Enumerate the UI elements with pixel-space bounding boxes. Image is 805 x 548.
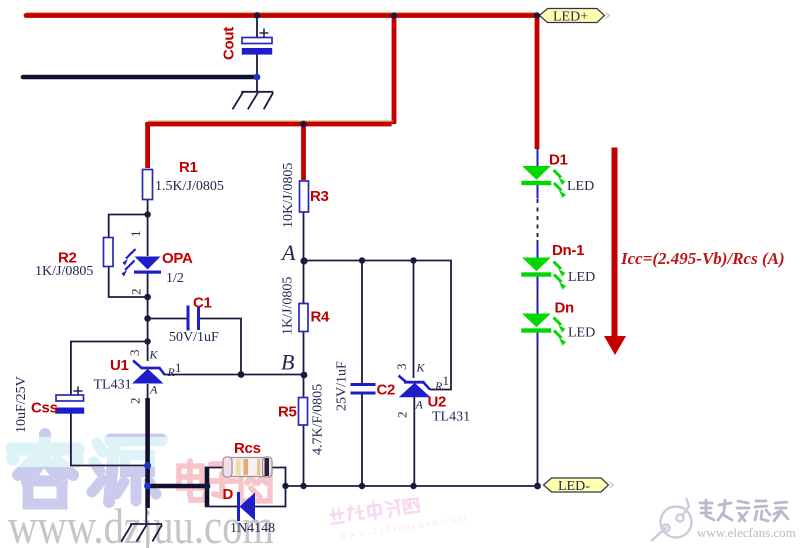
pin 3 U1 [127, 350, 142, 357]
label U2 [428, 394, 447, 411]
label OPA [162, 250, 193, 267]
op-amp OPA photodiode symbol [122, 249, 162, 277]
node B label [281, 350, 294, 375]
label Dn-1 [552, 242, 584, 259]
grid tint above second bus [148, 120, 393, 121]
node A label [280, 240, 296, 265]
pin 2 OPA [129, 289, 144, 296]
pin K U2 [416, 361, 426, 375]
svg-text:TL431: TL431 [432, 410, 470, 425]
svg-text:2: 2 [128, 398, 143, 405]
wire R2 branch [109, 215, 148, 298]
label R2 [58, 250, 77, 267]
wire bottom bus [286, 485, 540, 487]
pin 2 U1 [128, 398, 143, 405]
LED Dn-1 [521, 244, 566, 290]
label D [223, 486, 234, 503]
wire R3 R4 column [303, 211, 305, 487]
svg-text:1K/J/0805: 1K/J/0805 [35, 264, 93, 279]
svg-text:1N4148: 1N4148 [230, 521, 275, 536]
wire Cout bottom to ground [256, 54, 258, 92]
svg-text:LED: LED [567, 179, 594, 194]
svg-text:K: K [149, 348, 159, 362]
port LED+ [540, 9, 610, 25]
label R5 [278, 404, 297, 421]
formula Icc [620, 249, 785, 268]
svg-text:TL431: TL431 [94, 378, 132, 393]
label D1 [549, 152, 568, 169]
pin 1 U1 [175, 360, 182, 375]
svg-text:C2: C2 [377, 382, 396, 399]
label Css [31, 400, 58, 417]
wire red stub to R3 [301, 124, 306, 180]
wire LED column top [537, 148, 539, 167]
wire red stub to R1 [145, 122, 150, 168]
label R1 [179, 159, 198, 176]
svg-text:3: 3 [394, 364, 409, 371]
label C2 [377, 382, 396, 399]
transistor U1 TL431 [132, 361, 165, 384]
wire network top through Rcs [205, 467, 286, 469]
wire red drop to LED string [535, 14, 540, 150]
svg-text:A: A [149, 383, 158, 397]
capacitor C1 [188, 306, 199, 331]
svg-text:1.5K/J/0805: 1.5K/J/0805 [155, 179, 224, 194]
label Dn [555, 300, 575, 317]
svg-text:2: 2 [395, 412, 410, 419]
value U2 TL431 [432, 410, 470, 425]
wire C1 branch right down to node B [200, 319, 241, 375]
watermark dian-zi-wang pink characters [179, 461, 270, 501]
svg-text:K: K [416, 361, 426, 375]
pin A U1 [149, 383, 158, 397]
transistor U2 TL431 [399, 376, 431, 398]
wire C2 column [361, 261, 363, 488]
watermark shiji-dianyuan pink small [330, 489, 469, 543]
value OPA 1/2 [166, 271, 184, 286]
label C1 [193, 295, 212, 312]
wire U1 anode thin [147, 384, 149, 400]
pin 1 U2 [443, 373, 450, 388]
wire node A rail [304, 261, 452, 390]
svg-text:www.21dianyuan.com: www.21dianyuan.com [339, 513, 469, 542]
svg-text:B: B [281, 350, 294, 375]
ground at U1 [121, 524, 162, 542]
value R1 1.5K/J/0805 [155, 179, 224, 194]
value R2 1K/J/0805 [35, 264, 93, 279]
svg-text:A: A [280, 240, 296, 265]
svg-text:OPA: OPA [162, 250, 193, 267]
wire U2 anode [413, 397, 415, 487]
grid tint above top bus [26, 12, 536, 14]
pin A U2 [415, 398, 424, 412]
pin 2 U2 [395, 412, 410, 419]
diode D 1N4148 [239, 492, 256, 521]
svg-text:A: A [415, 398, 424, 412]
value Css 10uF/25V [14, 376, 29, 433]
wire U2 cathode column [413, 261, 415, 379]
svg-text:Dn: Dn [555, 300, 575, 317]
svg-text:R1: R1 [179, 159, 198, 176]
svg-text:50V/1uF: 50V/1uF [169, 330, 219, 345]
svg-text:LED: LED [568, 326, 595, 341]
capacitor Css [55, 387, 84, 414]
label Rcs [234, 440, 261, 457]
wire Dn-1 to Dn [537, 276, 539, 314]
pin K U1 [149, 348, 159, 362]
svg-text:U1: U1 [110, 357, 129, 374]
svg-text:25V/1uF: 25V/1uF [335, 361, 350, 411]
resistor R2 [104, 238, 114, 267]
wire red vertical feed at x394 [392, 16, 397, 125]
svg-text:1: 1 [443, 373, 450, 388]
svg-text:4.7K/F/0805: 4.7K/F/0805 [311, 384, 326, 455]
watermark www.dzjuu.com gray [8, 498, 274, 548]
svg-text:1/2: 1/2 [166, 271, 184, 286]
wire network right side [285, 467, 287, 508]
label R3 [310, 188, 329, 205]
port LED- [544, 478, 614, 494]
wire Cout top [256, 16, 258, 39]
svg-text:R4: R4 [311, 309, 331, 326]
svg-text:D1: D1 [549, 152, 568, 169]
value C1 50V/1uF [169, 330, 219, 345]
svg-text:1K/J/0805: 1K/J/0805 [281, 277, 296, 335]
wire network bottom through diode [205, 506, 286, 508]
svg-text:Dn-1: Dn-1 [552, 242, 584, 259]
svg-text:LED+: LED+ [553, 10, 588, 25]
watermark www.elecfans.com small [697, 525, 796, 540]
wire C1 branch left [148, 318, 187, 320]
wire U1 anode thick to ground [145, 398, 150, 508]
svg-text:Css: Css [31, 400, 58, 417]
svg-text:2: 2 [129, 289, 144, 296]
resistor R4 [299, 304, 308, 332]
wire thick to current-sense network [148, 484, 207, 489]
value Dn-1 LED [568, 270, 595, 285]
wire red top power bus [26, 13, 537, 18]
value Dn LED [568, 326, 595, 341]
wire main vertical below R1 [147, 199, 149, 256]
svg-text:C1: C1 [193, 295, 212, 312]
wire thick network left side [205, 467, 210, 508]
wire Css branch [71, 342, 148, 466]
svg-text:R5: R5 [278, 404, 297, 421]
svg-text:3: 3 [127, 350, 142, 357]
pin 1 OPA [128, 231, 143, 238]
resistor R5 [299, 398, 308, 426]
pin R U1 [167, 365, 176, 379]
svg-text:www.elecfans.com: www.elecfans.com [697, 525, 796, 540]
resistor R3 [300, 181, 309, 212]
LED D1 [521, 150, 566, 199]
svg-text:U2: U2 [428, 394, 447, 411]
wire D1 to dashes [537, 185, 539, 198]
value R3 10K/J/0805 [281, 163, 296, 228]
wire navy thick return bus top left [23, 75, 257, 80]
value R5 4.7K/F/0805 [311, 384, 326, 455]
svg-text:10uF/25V: 10uF/25V [14, 376, 29, 433]
label Cout [221, 27, 238, 60]
value R4 1K/J/0805 [281, 277, 296, 335]
svg-text:1: 1 [128, 231, 143, 238]
wire dashes to Dn-1 [537, 240, 539, 258]
label R4 [311, 309, 331, 326]
arrow Icc current [604, 148, 626, 356]
wire U1 ref to node B [164, 374, 305, 376]
wire thin stub to bottom ground [145, 507, 147, 524]
value U1 TL431 [94, 378, 132, 393]
svg-text:Cout: Cout [221, 27, 238, 60]
ground at Cout [233, 92, 274, 110]
value C2 25V/1uF [335, 361, 350, 411]
svg-text:1: 1 [175, 360, 182, 375]
value D1 LED [567, 179, 594, 194]
svg-text:R3: R3 [310, 188, 329, 205]
svg-text:LED: LED [568, 270, 595, 285]
svg-text:Rcs: Rcs [234, 440, 261, 457]
resistor Rcs realistic body [223, 457, 272, 477]
watermark elecfans logo bottom right [651, 498, 692, 541]
svg-text:LED-: LED- [558, 479, 590, 494]
capacitor Cout [242, 29, 272, 55]
svg-text:Icc=(2.495-Vb)/Rcs (A): Icc=(2.495-Vb)/Rcs (A) [620, 249, 785, 268]
svg-text:10K/J/0805: 10K/J/0805 [281, 163, 296, 228]
wire Dn to bottom bus [537, 331, 539, 487]
LED Dn [521, 300, 566, 346]
resistor R1 [143, 170, 153, 200]
label U1 [110, 357, 129, 374]
value D 1N4148 [230, 521, 275, 536]
wire red second bus [148, 122, 392, 127]
wire dashed between D1 and Dn-1 [537, 199, 539, 240]
capacitor C2 [351, 385, 376, 394]
watermark elecfans characters [700, 500, 788, 521]
wire main vertical OPA to U1 [147, 273, 149, 361]
pin 3 U2 [394, 364, 409, 371]
pin R U2 [434, 379, 443, 393]
svg-text:D: D [223, 486, 234, 503]
